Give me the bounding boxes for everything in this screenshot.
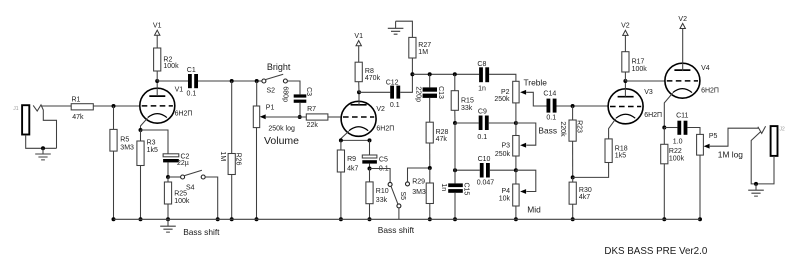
svg-text:C13: C13 [437, 86, 444, 99]
wire V2 cathode lead [341, 131, 349, 140]
P5 wiper arrow [704, 144, 710, 149]
junction R29 rail [428, 217, 432, 221]
wire V3 plate lead [624, 81, 626, 97]
capacitor C9 [477, 108, 488, 141]
wire P4 wiper loop [516, 170, 536, 191]
svg-text:J1: J1 [13, 106, 19, 112]
svg-text:P2: P2 [501, 89, 510, 96]
svg-text:R29: R29 [412, 178, 425, 185]
wire C12 to tone stack [400, 74, 412, 92]
wire C13 top lead [429, 74, 431, 87]
ground input [35, 154, 51, 160]
svg-text:1n: 1n [440, 183, 447, 191]
wire R10 top lead [369, 169, 371, 182]
svg-text:C8: C8 [477, 61, 486, 68]
junction C9 line right [514, 121, 518, 125]
svg-text:P5: P5 [709, 133, 718, 140]
wire P1 wiper to R7 [266, 116, 307, 118]
svg-text:220k: 220k [559, 121, 566, 137]
junction R3 rail [139, 217, 143, 221]
wire R9 to rail [340, 172, 342, 219]
svg-text:P3: P3 [501, 143, 510, 150]
wire R3 to rail [140, 166, 142, 220]
svg-text:R7: R7 [307, 106, 316, 113]
wire R3 top lead [140, 130, 142, 141]
resistor R15 [451, 91, 474, 112]
svg-text:4k7: 4k7 [579, 194, 590, 201]
wire R2 to plate node [156, 71, 158, 81]
resistor R1 [71, 97, 93, 121]
svg-text:0.047: 0.047 [477, 180, 495, 187]
wire R9 top lead [340, 140, 342, 150]
svg-text:0.1: 0.1 [546, 115, 556, 122]
svg-text:V4: V4 [701, 65, 710, 72]
wire V2 supply to V4 plate [682, 29, 684, 72]
wire R8 to V2 plate node [358, 82, 360, 93]
svg-text:R9: R9 [347, 156, 356, 163]
wire ground rail [114, 218, 701, 220]
junction input sleeve [41, 146, 45, 150]
svg-text:J2: J2 [780, 127, 786, 133]
switch S5 contact right [406, 182, 410, 186]
wire C8 to P2 [489, 74, 516, 81]
svg-text:R28: R28 [436, 129, 449, 136]
wire R27 to tone line [411, 58, 413, 74]
svg-text:22µ: 22µ [177, 160, 189, 167]
svg-text:R10: R10 [376, 188, 389, 195]
P1 wiper arrow [260, 114, 266, 119]
svg-text:Bass: Bass [538, 126, 557, 136]
junction S4 rail [216, 217, 220, 221]
junction R9 top [339, 138, 343, 142]
wire top ground link [396, 21, 413, 37]
resistor R5 [110, 129, 134, 151]
svg-text:Bass shift: Bass shift [183, 227, 220, 237]
wire S4 left lead [168, 176, 181, 178]
wire C5 top lead [369, 140, 371, 155]
power node V2 supply cathode follower [678, 16, 687, 29]
wire R30 top lead [572, 177, 574, 182]
svg-text:100k: 100k [174, 198, 190, 205]
triode V3 [608, 89, 643, 124]
wire P4 bottom to rail [515, 206, 517, 219]
junction R26 rail [230, 217, 234, 221]
wire tone top line [412, 73, 479, 75]
potentiometer P3 [495, 136, 519, 159]
junction C15 rail [453, 217, 457, 221]
svg-text:6Н2П: 6Н2П [175, 110, 193, 117]
svg-text:220p: 220p [414, 86, 421, 102]
wire C2 to S4 node [167, 162, 169, 177]
svg-text:0.1: 0.1 [390, 102, 400, 109]
junction R23/R18/R30 [571, 175, 575, 179]
wire R29 to rail [429, 204, 431, 220]
wire P3 wiper loop [516, 123, 536, 145]
wire V2 plate lead [358, 92, 360, 105]
wire C10 line left [455, 169, 480, 171]
svg-text:S5: S5 [399, 192, 406, 201]
svg-text:1M: 1M [219, 151, 226, 161]
wire V1 supply to R2 [156, 35, 158, 48]
wire V3 cathode lead [609, 119, 616, 139]
capacitor C10 [477, 156, 495, 186]
wire R10 to rail [369, 204, 371, 220]
resistor R27 [409, 37, 431, 58]
svg-text:0.1: 0.1 [477, 134, 487, 141]
wire S5 right contact to R29 node [408, 168, 430, 182]
svg-text:C9: C9 [478, 108, 487, 115]
svg-text:0.1: 0.1 [187, 91, 197, 98]
svg-text:R3: R3 [147, 139, 156, 146]
svg-text:33k: 33k [461, 105, 473, 112]
junction C2/R25/S4 [166, 175, 170, 179]
svg-text:R25: R25 [174, 190, 187, 197]
junction C10 line left [453, 168, 457, 172]
resistor R23 [559, 120, 582, 141]
svg-text:V1: V1 [153, 23, 162, 30]
junction V1 cathode node [139, 128, 143, 132]
wire C11 left lead [664, 127, 677, 129]
wire S5 top lead [370, 169, 391, 183]
svg-text:6Н2П: 6Н2П [701, 88, 719, 95]
wire R28 to R29 node [429, 143, 431, 168]
junction V1 plate node [155, 79, 159, 83]
wire R15 top lead [454, 74, 456, 90]
switch S4 contact right [201, 175, 205, 179]
wire R23 top lead [572, 106, 574, 120]
svg-text:C14: C14 [543, 91, 556, 98]
junction C9 line left [453, 121, 457, 125]
wire S5 to rail [398, 208, 400, 219]
switch S2 contact right [283, 79, 287, 83]
switch S2 contact left [262, 79, 266, 83]
resistor R25 [164, 182, 189, 205]
wire C5 to R10 node [369, 164, 371, 169]
junction V2 plate node [357, 90, 361, 94]
capacitor C15 [440, 182, 469, 195]
junction C5 top [368, 138, 372, 142]
wire C9 line left [455, 122, 479, 124]
capacitor C13 [414, 86, 444, 102]
potentiometer P1 [253, 105, 274, 128]
wire S4 to rail [205, 177, 218, 219]
junction R28/R29/S5 [428, 166, 432, 170]
wire P2 wiper to C14 [526, 92, 546, 106]
junction V3 plate node [623, 79, 627, 83]
wire C10 line right [490, 169, 516, 171]
svg-text:C1: C1 [187, 67, 196, 74]
wire J1 tip to R1 [41, 105, 71, 107]
svg-text:R17: R17 [632, 58, 645, 65]
wire input ground stub [42, 148, 44, 154]
svg-text:V1: V1 [175, 87, 184, 94]
triode V1 [140, 88, 175, 123]
resistor R30 [569, 182, 592, 204]
svg-text:1n: 1n [478, 85, 486, 92]
svg-text:100k: 100k [163, 63, 179, 70]
wire R29 top lead [429, 168, 431, 183]
wire P1 top lead [256, 81, 258, 106]
svg-text:6Н2П: 6Н2П [644, 112, 662, 119]
wire P3 top lead [515, 123, 517, 136]
svg-text:R1: R1 [72, 97, 81, 104]
svg-text:C11: C11 [676, 113, 688, 120]
junction output sleeve [754, 182, 758, 186]
wire R5 top lead [113, 106, 115, 129]
wire R26 upper lead [231, 81, 233, 154]
wire V4 cathode lead [664, 93, 672, 127]
svg-text:1k5: 1k5 [615, 152, 626, 159]
svg-text:R5: R5 [120, 136, 129, 143]
svg-text:680p: 680p [281, 86, 288, 102]
svg-text:Mid: Mid [527, 205, 541, 215]
wire P1 bottom to rail [256, 128, 258, 220]
svg-text:1M: 1M [418, 49, 428, 56]
svg-text:R30: R30 [579, 187, 592, 194]
wire R15 node to C15 [454, 123, 456, 183]
wire C15 to rail [454, 193, 456, 220]
svg-text:P4: P4 [501, 188, 510, 195]
svg-text:10k: 10k [499, 196, 511, 203]
svg-text:DKS BASS PRE Ver2.0: DKS BASS PRE Ver2.0 [604, 246, 707, 257]
input jack J1 [13, 105, 56, 148]
svg-text:3M3: 3M3 [120, 145, 134, 152]
resistor R22 [661, 144, 685, 164]
wire R1 to V1 grid [93, 105, 140, 107]
wire R22 top lead [663, 128, 665, 145]
switch S5 blade [391, 186, 398, 204]
wire R25 to rail [167, 204, 169, 219]
svg-text:Bass shift: Bass shift [378, 225, 415, 235]
switch S4 blade [185, 170, 202, 175]
svg-text:V1: V1 [354, 33, 363, 40]
svg-text:Volume: Volume [264, 135, 299, 147]
potentiometer P5 [697, 133, 718, 155]
wire C14 to V3 grid [557, 105, 609, 107]
wire R26 to rail [231, 175, 233, 220]
junction tone line R27 [410, 72, 414, 76]
svg-text:22k: 22k [307, 122, 319, 129]
junction R10 rail [368, 217, 372, 221]
potentiometer P4 [499, 184, 519, 206]
wire R5 to ground rail [113, 151, 115, 219]
output jack J2 [751, 126, 785, 184]
svg-text:V3: V3 [644, 89, 653, 96]
wire P4 top lead [515, 170, 517, 184]
P4 wiper arrow [520, 189, 526, 194]
wire R25 top lead [167, 177, 169, 182]
ground R27 top [388, 28, 404, 34]
wire V1 supply to R8 [358, 46, 360, 63]
wire V2 supply to R17 [624, 35, 626, 51]
wire R30 to rail [572, 204, 574, 219]
junction V4 cathode/C11/R22 [662, 126, 666, 130]
wire P3 bottom lead [515, 156, 517, 170]
junction C5/R10/S5 [368, 167, 372, 171]
resistor R26 [219, 151, 242, 174]
svg-text:C15: C15 [462, 182, 469, 195]
svg-text:R23: R23 [575, 120, 582, 133]
svg-text:C12: C12 [386, 79, 399, 86]
svg-text:3M3: 3M3 [412, 189, 426, 196]
wire V3 plate to V4 grid [625, 80, 665, 82]
junction R30 rail [571, 217, 575, 221]
P2 wiper arrow [520, 90, 526, 95]
resistor R17 [622, 52, 647, 73]
svg-text:R22: R22 [669, 148, 682, 155]
resistor R8 [355, 62, 380, 82]
wire C1 to bright node [198, 80, 262, 82]
wire R18 to node [573, 163, 609, 178]
triode V4 [665, 63, 700, 98]
junction C14/R23 [571, 104, 575, 108]
switch S5 contact top [388, 182, 392, 186]
svg-text:Treble: Treble [524, 78, 548, 88]
svg-text:47k: 47k [72, 114, 84, 121]
wire R23 to R30 node [572, 141, 574, 177]
ground rail left [160, 226, 176, 232]
junction R22 rail [662, 217, 666, 221]
wire rail ground stub [167, 219, 169, 226]
triode V2 [341, 101, 376, 136]
svg-text:1k5: 1k5 [147, 147, 158, 154]
svg-text:R15: R15 [461, 98, 474, 105]
svg-text:33k: 33k [376, 197, 388, 204]
power node V1 supply first stage [153, 23, 162, 36]
svg-text:250k: 250k [495, 151, 511, 158]
capacitor C11 [673, 113, 689, 146]
svg-text:C5: C5 [379, 157, 388, 164]
P3 wiper arrow [520, 143, 526, 148]
wire C13 to R28 [429, 98, 431, 123]
junction tone line C13 [428, 72, 432, 76]
svg-text:1M log: 1M log [718, 150, 743, 160]
capacitor C14 [543, 91, 556, 122]
resistor R7 [306, 106, 328, 129]
wire P5 bottom to rail [699, 155, 701, 219]
power node V2 supply third stage [621, 23, 630, 36]
wire V1 cathode lead [141, 118, 148, 130]
svg-text:P1: P1 [266, 105, 275, 112]
junction C10 line right [514, 168, 518, 172]
wire V2 plate to C12 [359, 91, 390, 93]
svg-text:R26: R26 [235, 153, 242, 166]
junction P4 rail [514, 217, 518, 221]
resistor R3 [137, 139, 158, 165]
junction R5 rail [112, 217, 116, 221]
svg-text:V2: V2 [621, 23, 630, 30]
junction node R5 tap [112, 104, 116, 108]
capacitor C8 [477, 61, 489, 93]
wire plate node to C1 [157, 80, 188, 82]
switch S4 contact left [181, 175, 185, 179]
capacitor C5 [362, 155, 388, 172]
junction P1 rail [255, 217, 259, 221]
resistor R9 [337, 150, 358, 172]
svg-text:C10: C10 [478, 156, 491, 163]
resistor R29 [412, 178, 433, 203]
wire R22 to rail [663, 164, 665, 220]
svg-text:S4: S4 [186, 184, 195, 191]
wire R17 to plate node [624, 72, 626, 81]
svg-text:250k log: 250k log [268, 125, 295, 132]
capacitor C1 [187, 67, 199, 98]
wire P2 bottom lead [515, 103, 517, 123]
svg-text:4k7: 4k7 [347, 165, 358, 172]
resistor R18 [605, 139, 628, 163]
svg-text:1.0: 1.0 [673, 138, 683, 145]
wire S2 to C3 [287, 81, 300, 94]
wire P5 wiper to jack [710, 128, 759, 146]
wire R7 to V2 grid [328, 116, 341, 118]
wire R15 to C9 line [454, 110, 456, 123]
svg-text:47k: 47k [436, 136, 448, 143]
resistor R28 [426, 122, 448, 143]
svg-text:S2: S2 [267, 87, 276, 94]
svg-text:C3: C3 [305, 87, 312, 96]
ground output [748, 190, 764, 196]
power node V1 supply second stage [354, 33, 363, 46]
svg-text:100k: 100k [669, 155, 685, 162]
wire V1 plate lead [156, 81, 158, 96]
junction C3/R7/P1 wiper [298, 115, 302, 119]
capacitor C3 [281, 86, 312, 102]
switch S5 contact bottom [397, 204, 401, 208]
capacitor C2 [163, 154, 189, 168]
junction P1 top [255, 79, 259, 83]
wire output ground stub [755, 184, 757, 190]
wire V2 cathode bus [341, 139, 370, 141]
wire C11 to P5 [687, 128, 700, 135]
svg-text:Bright: Bright [267, 62, 291, 72]
resistor R10 [366, 182, 389, 204]
wire C9 line right [489, 122, 516, 124]
junction tone line R15 [453, 72, 457, 76]
potentiometer P2 [494, 81, 519, 103]
svg-text:250k: 250k [494, 96, 510, 103]
svg-text:V2: V2 [376, 106, 385, 113]
resistor R2 [154, 48, 179, 71]
wire cathode to C2 [141, 130, 169, 154]
junction R9 rail [339, 217, 343, 221]
svg-text:6Н2П: 6Н2П [376, 126, 394, 133]
svg-text:470k: 470k [365, 75, 381, 82]
junction R25 rail [166, 217, 170, 221]
junction R26 top [230, 79, 234, 83]
junction P5 rail [698, 217, 702, 221]
svg-text:V2: V2 [678, 16, 687, 23]
svg-text:100k: 100k [632, 66, 648, 73]
wire C3 to wiper node [299, 103, 301, 117]
capacitor C12 [386, 79, 400, 109]
switch S2 blade [266, 74, 283, 79]
